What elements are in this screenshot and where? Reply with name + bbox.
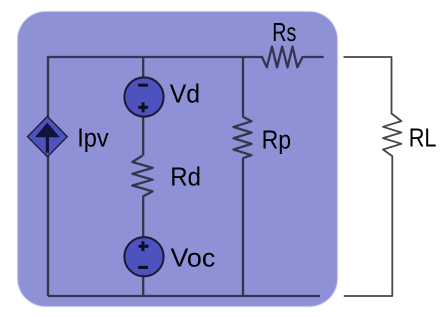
svg-text:Rd: Rd (170, 161, 201, 191)
svg-text:Ipv: Ipv (77, 123, 109, 153)
svg-text:Voc: Voc (171, 242, 216, 272)
svg-text:RL: RL (409, 122, 437, 152)
svg-text:Vd: Vd (170, 79, 200, 109)
svg-text:Rp: Rp (262, 124, 292, 154)
svg-text:Rs: Rs (272, 17, 296, 47)
